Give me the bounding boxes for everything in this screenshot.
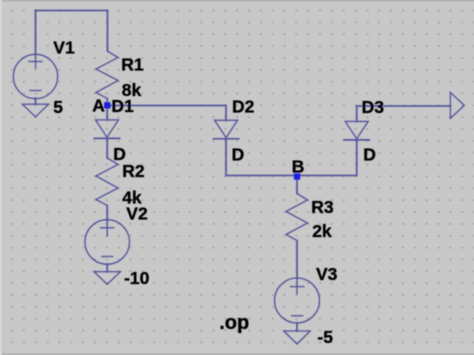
wire D2 bottom to node B bus	[226, 139, 357, 176]
resistor R3	[286, 194, 308, 241]
diode D2	[215, 120, 238, 137]
output port arrow	[450, 93, 464, 119]
svg-text:-10: -10	[124, 268, 150, 288]
svg-text:-5: -5	[317, 327, 333, 347]
ground under V1	[22, 104, 48, 117]
wire R2 bottom to V2	[106, 206, 108, 221]
wire R3 bottom to V3	[296, 241, 298, 279]
svg-text:V2: V2	[126, 203, 148, 223]
svg-text:2k: 2k	[312, 221, 332, 241]
svg-text:D2: D2	[232, 97, 255, 117]
diode D1	[96, 120, 119, 137]
svg-text:D: D	[232, 145, 245, 165]
resistor R1	[96, 51, 118, 99]
wire node A to D2 top	[107, 106, 226, 121]
svg-text:A: A	[92, 96, 105, 116]
wire D1 to R2	[106, 139, 108, 159]
wire top horizontal V1 to R1	[36, 10, 108, 12]
svg-text:5: 5	[53, 97, 63, 117]
wire D3 corner to output port	[357, 106, 451, 122]
svg-text:V1: V1	[53, 37, 75, 57]
svg-text:B: B	[292, 157, 305, 177]
svg-text:R2: R2	[122, 161, 145, 181]
node A junction	[104, 102, 110, 108]
voltage source V1	[13, 54, 57, 98]
resistor R2	[96, 158, 118, 206]
wire node B down to R3	[296, 176, 298, 194]
ground under V3	[284, 331, 310, 344]
svg-text:D3: D3	[362, 97, 385, 117]
svg-text:R3: R3	[311, 197, 334, 217]
ground under V2	[94, 272, 120, 285]
svg-text:D1: D1	[111, 96, 134, 116]
voltage source V2	[85, 220, 130, 265]
node B junction	[294, 173, 300, 179]
diode D3	[345, 121, 368, 138]
svg-text:V3: V3	[316, 264, 338, 284]
svg-text:R1: R1	[121, 55, 144, 75]
wire right vertical into R1	[107, 11, 109, 52]
wire left vertical into V1	[35, 11, 37, 55]
voltage source V3	[275, 278, 320, 323]
svg-text:D: D	[363, 145, 376, 165]
svg-text:.op: .op	[219, 312, 249, 334]
wire R1 bottom to D1 through node A	[106, 99, 108, 121]
